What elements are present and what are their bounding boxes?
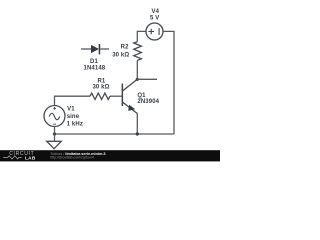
CircuitLab logo	[3, 151, 36, 161]
svg-text:R1: R1	[97, 78, 105, 84]
resistor R1	[55, 93, 123, 105]
ground	[47, 134, 62, 149]
node (V1 to bottom rail)	[53, 132, 56, 135]
transistor Q1	[122, 79, 138, 134]
svg-text:D1: D1	[90, 59, 98, 65]
wire (output stub from collector node)	[137, 78, 157, 80]
wire (cathode lead of D1)	[100, 48, 109, 50]
svg-text:R2: R2	[121, 44, 129, 50]
wire (emitter down to bottom rail)	[136, 114, 138, 135]
watermark bar	[0, 150, 220, 161]
diode D1	[81, 44, 109, 54]
wire (top lead of R2 to V4)	[137, 31, 146, 41]
wire (V1 bottom to rail node)	[54, 127, 56, 135]
wire (left lead from V1 node to R1)	[55, 96, 91, 105]
svg-text:2N3904: 2N3904	[137, 99, 159, 105]
collector diagonal	[123, 79, 138, 90]
svg-text:sine: sine	[67, 114, 80, 120]
svg-text:1N4148: 1N4148	[84, 66, 106, 72]
resistor R2	[134, 31, 146, 79]
wire (right lead of R1 to Q1 base)	[110, 95, 122, 97]
svg-text:5 V: 5 V	[150, 15, 159, 21]
wire (V4 right terminal to right rail)	[163, 31, 174, 134]
node (emitter to bottom rail)	[136, 132, 139, 135]
svg-text:30 kΩ: 30 kΩ	[92, 85, 109, 91]
emitter diagonal with arrow	[123, 102, 138, 113]
svg-text:V1: V1	[67, 106, 75, 112]
wire (anode lead of D1)	[81, 48, 91, 50]
svg-text:1 kHz: 1 kHz	[67, 121, 83, 127]
svg-text:30 kΩ: 30 kΩ	[112, 52, 129, 58]
wire (bottom rail)	[55, 133, 175, 135]
svg-text:LAB: LAB	[25, 155, 36, 161]
voltage source V4	[146, 23, 163, 40]
svg-text:V4: V4	[152, 9, 160, 15]
source V1	[44, 106, 65, 135]
svg-text:http://circuitlab.com/cqrbun4: http://circuitlab.com/cqrbun4	[50, 155, 94, 159]
wire (bottom lead of R2 to collector node)	[136, 61, 138, 80]
node (collector junction)	[136, 78, 139, 81]
